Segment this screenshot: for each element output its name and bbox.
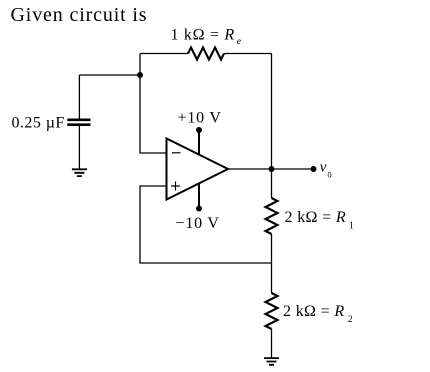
wire top feedback horizontal left — [140, 53, 188, 55]
supply +10V lead — [198, 130, 200, 155]
capacitor 0.25uF plates — [67, 120, 90, 125]
svg-text:0: 0 — [327, 170, 331, 180]
svg-text:e: e — [237, 37, 241, 47]
node output junction — [269, 166, 275, 172]
minus sign inside op-amp — [172, 152, 181, 154]
svg-text:1 kΩ = R: 1 kΩ = R — [171, 27, 235, 44]
svg-text:1: 1 — [349, 220, 354, 231]
wire inverting input from junction down and right — [140, 75, 167, 153]
svg-text:Given circuit is: Given circuit is — [11, 4, 148, 26]
wire R2 to ground — [271, 329, 273, 358]
wire output from op-amp to v0 — [228, 168, 314, 170]
op-amp U1 triangle — [167, 139, 229, 200]
svg-text:0.25 µF: 0.25 µF — [12, 115, 65, 132]
svg-text:2 kΩ = R: 2 kΩ = R — [285, 209, 347, 226]
node v0 terminal — [311, 166, 317, 172]
wire left vertical from top wire to junction — [139, 54, 141, 76]
supply -10V lead — [198, 183, 200, 208]
node -10V terminal dot — [196, 206, 202, 212]
resistor R1 zigzag — [266, 198, 278, 234]
node junction top-left — [137, 72, 143, 78]
svg-text:−10 V: −10 V — [176, 215, 220, 232]
resistor R2 zigzag — [266, 293, 278, 329]
svg-text:v: v — [320, 160, 327, 176]
ground left — [72, 169, 87, 176]
svg-text:2: 2 — [348, 315, 353, 325]
resistor R_e zigzag — [188, 48, 224, 60]
svg-text:+10 V: +10 V — [178, 110, 222, 127]
wire noninverting input left and down — [140, 186, 272, 263]
ground right — [264, 358, 279, 365]
wire horizontal junction to capacitor — [79, 74, 140, 76]
wire right vertical from top to R1 — [271, 54, 273, 199]
wire between R1 and R2 — [271, 234, 273, 293]
wire capacitor bottom lead — [78, 126, 80, 169]
wire top feedback horizontal right — [224, 53, 272, 55]
plus sign inside op-amp — [171, 182, 180, 191]
node +10V terminal dot — [196, 127, 202, 133]
svg-text:2 kΩ = R: 2 kΩ = R — [283, 303, 345, 320]
wire capacitor top lead — [78, 75, 80, 119]
